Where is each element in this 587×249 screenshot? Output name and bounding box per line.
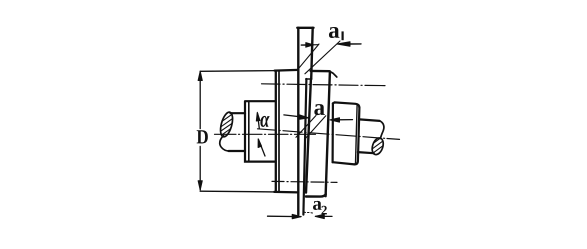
left flange inner face line xyxy=(278,72,280,191)
angle alpha lower arrow xyxy=(259,140,266,157)
right hub top edge xyxy=(333,102,360,107)
label a2 xyxy=(313,201,322,210)
right flange top-right chamfer xyxy=(330,71,337,77)
right hub bottom edge xyxy=(333,162,355,164)
wedge gauge blade right edge xyxy=(303,79,306,215)
dimension D arrowhead top xyxy=(198,71,202,80)
right shaft break ellipse xyxy=(370,137,385,157)
right flange right edge xyxy=(326,72,330,197)
right hub left edge xyxy=(332,103,334,162)
right shaft bottom line xyxy=(358,152,374,153)
dimension a1 right arrow xyxy=(349,43,361,45)
dimension a mid left arrow xyxy=(284,115,308,118)
dimension a mid right arrow xyxy=(338,119,353,121)
label a1 xyxy=(329,27,339,38)
dimension a mid oblique extension line 1 xyxy=(296,116,316,138)
right flange bottom edge xyxy=(306,194,326,196)
left hub chamfer line xyxy=(248,101,250,161)
label alpha xyxy=(260,116,269,127)
dimension D extension line top xyxy=(200,70,275,73)
dimension a1 oblique extension line 1 xyxy=(298,44,320,70)
dimension a1 oblique extension line 2 xyxy=(305,41,340,74)
wedge gauge right edge upper xyxy=(311,28,313,79)
right flange top edge xyxy=(311,70,330,73)
wedge gauge top cap xyxy=(297,27,313,29)
dimension D extension line bottom xyxy=(200,190,274,193)
left shaft top line xyxy=(231,112,246,114)
right shaft top line xyxy=(359,119,379,121)
right hub inner edge line xyxy=(356,105,358,164)
left centerline xyxy=(215,133,316,135)
angle alpha upper arrow xyxy=(258,114,260,129)
dimension a mid oblique extension line 2 xyxy=(305,116,326,140)
left shaft break S-curve xyxy=(220,136,229,152)
label a (mid) xyxy=(314,104,324,115)
right flange left face xyxy=(306,79,311,192)
dimension a1 left arrow xyxy=(301,44,308,46)
right shaft break hatching xyxy=(367,131,389,163)
bottom bolt centerline xyxy=(272,181,337,182)
a2 gap squiggle xyxy=(304,212,313,213)
wedge gauge step line xyxy=(306,78,312,80)
left hub outline xyxy=(245,101,276,161)
right tilted centerline xyxy=(258,129,400,140)
left flange left edge xyxy=(275,71,277,192)
left shaft bottom line xyxy=(229,150,246,152)
left flange bottom edge xyxy=(274,191,298,194)
dimension D arrowhead bottom xyxy=(198,181,202,190)
dimension a2 right arrow xyxy=(316,215,332,217)
right hub right edge xyxy=(355,108,360,165)
left shaft break hatching xyxy=(214,103,240,147)
left flange top edge xyxy=(275,69,299,72)
wedge gauge left edge xyxy=(297,28,299,215)
top bolt centerline xyxy=(262,84,386,86)
label D xyxy=(197,130,208,143)
right shaft end curve xyxy=(380,121,384,139)
dimension D line xyxy=(199,71,201,128)
left shaft break ellipse xyxy=(218,111,235,138)
dimension a2 left arrow xyxy=(268,215,301,217)
